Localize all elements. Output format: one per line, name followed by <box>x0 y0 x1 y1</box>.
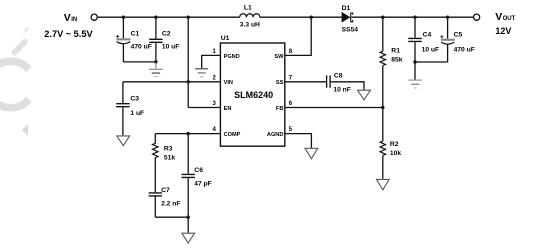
wire R3-C6 bottom <box>155 216 188 218</box>
wire VIN branch vertical <box>187 17 189 107</box>
svg-text:PGND: PGND <box>224 54 240 60</box>
svg-text:2.7V ~ 5.5V: 2.7V ~ 5.5V <box>44 29 93 39</box>
svg-text:47 pF: 47 pF <box>194 180 211 187</box>
wire C4-C5 bottom <box>415 61 448 63</box>
label 10 uF c4 <box>422 46 439 53</box>
pin number 2 <box>212 75 216 81</box>
svg-text:2.2 nF: 2.2 nF <box>161 200 180 207</box>
pin name AGND <box>267 132 283 138</box>
svg-text:C1: C1 <box>131 30 140 37</box>
label 12V <box>495 26 511 36</box>
label 10 nF <box>333 86 350 93</box>
svg-text:SS54: SS54 <box>342 26 359 33</box>
svg-text:R3: R3 <box>164 145 173 152</box>
label 10 uF <box>162 44 179 51</box>
ground triangle R2 <box>376 179 389 189</box>
svg-text:12V: 12V <box>495 26 511 36</box>
ground triangle SS <box>358 90 371 100</box>
svg-text:SS: SS <box>276 80 284 86</box>
pin name FB <box>276 106 283 112</box>
label VOUT <box>495 11 515 23</box>
wire AGND pin <box>285 134 312 148</box>
svg-text:85k: 85k <box>391 56 402 63</box>
label R3 <box>164 145 173 152</box>
wire C1-C2 bottom <box>123 61 155 63</box>
junction rail-C2 <box>154 16 157 19</box>
capacitor C1 <box>116 17 130 62</box>
svg-text:10 uF: 10 uF <box>422 46 439 53</box>
svg-text:SLM6240: SLM6240 <box>234 90 273 100</box>
label 470 uF c5 <box>454 46 475 53</box>
pin name PGND <box>224 54 240 60</box>
diode D1 <box>342 13 353 22</box>
label 470 uF <box>131 44 152 51</box>
wire C3 top <box>123 81 188 83</box>
svg-text:C3: C3 <box>130 96 139 103</box>
svg-text:470 uF: 470 uF <box>131 44 152 51</box>
svg-text:AGND: AGND <box>267 132 283 138</box>
capacitor C3 <box>116 82 129 136</box>
pin number 5 <box>289 127 293 133</box>
svg-text:COMP: COMP <box>224 132 241 138</box>
resistor R3 <box>153 134 158 193</box>
svg-text:10k: 10k <box>390 150 401 157</box>
pin name SW <box>274 54 284 60</box>
ground earth PGND <box>195 69 208 77</box>
capacitor C4 <box>408 17 421 79</box>
label R2 <box>390 141 399 148</box>
wire SS pin <box>285 81 327 83</box>
svg-text:C8: C8 <box>334 72 343 79</box>
junction rail-C4 <box>413 16 416 19</box>
junction C2 bottom <box>154 60 157 63</box>
pin number 7 <box>289 75 293 81</box>
svg-text:FB: FB <box>276 106 283 112</box>
svg-text:R2: R2 <box>390 141 399 148</box>
svg-text:C6: C6 <box>194 167 203 174</box>
junction rail-VIN branch <box>187 16 190 19</box>
pin name SS <box>276 80 284 86</box>
junction bottom node <box>187 216 190 219</box>
svg-text:C2: C2 <box>162 30 171 37</box>
svg-text:10 nF: 10 nF <box>333 86 350 93</box>
capacitor C6 <box>182 134 195 218</box>
svg-text:C7: C7 <box>161 187 170 194</box>
label R1 <box>391 47 400 54</box>
ground triangle bottom <box>182 233 195 243</box>
wire to bottom ground <box>187 217 189 233</box>
wire PGND to ground <box>202 55 221 68</box>
pin number 3 <box>212 101 216 107</box>
pin name EN <box>224 106 232 112</box>
pin name COMP <box>224 132 241 138</box>
capacitor C8 <box>327 75 331 87</box>
label U1 <box>221 35 230 42</box>
watermark letter C <box>0 26 29 135</box>
label L1 <box>244 5 252 12</box>
label VIN <box>64 12 77 24</box>
label 1 uF <box>130 110 144 117</box>
pin name VIN <box>224 80 233 86</box>
svg-text:10 uF: 10 uF <box>162 44 179 51</box>
inductor L1 <box>240 14 260 17</box>
ground earth under C4 <box>408 80 422 88</box>
label 51k <box>164 154 175 161</box>
wire to EN pin <box>188 107 220 109</box>
svg-text:470 uF: 470 uF <box>454 46 475 53</box>
svg-text:51k: 51k <box>164 154 175 161</box>
label C2 <box>162 30 171 37</box>
wire FB pin <box>285 107 383 109</box>
terminal VIN <box>91 14 97 20</box>
svg-text:EN: EN <box>224 106 232 112</box>
junction C4 bottom <box>413 60 416 63</box>
svg-text:U1: U1 <box>221 35 230 42</box>
resistor R2 <box>380 108 385 179</box>
svg-text:1 uF: 1 uF <box>130 110 144 117</box>
label 3.3 uH <box>240 21 260 28</box>
label C6 <box>194 167 203 174</box>
svg-text:R1: R1 <box>391 47 400 54</box>
label C1 <box>131 30 140 37</box>
svg-text:C5: C5 <box>454 31 463 38</box>
wire C8 to ground <box>331 82 364 90</box>
junction rail-R1 <box>381 16 384 19</box>
junction COMP-C6 <box>187 132 190 135</box>
svg-text:OUT: OUT <box>503 16 516 22</box>
junction rail-SW <box>310 16 313 19</box>
junction rail-C5 <box>446 16 449 19</box>
resistor R1 <box>380 17 385 107</box>
junction rail-C1 <box>122 16 125 19</box>
wire COMP pin <box>155 133 220 135</box>
svg-text:V: V <box>64 12 71 24</box>
label C7 <box>161 187 170 194</box>
pin number 1 <box>212 49 216 55</box>
pin number 6 <box>289 101 293 107</box>
label input voltage range <box>44 29 93 39</box>
label C5 <box>454 31 463 38</box>
label 47 pF <box>194 180 211 187</box>
svg-text:D1: D1 <box>342 5 351 12</box>
label 85k <box>391 56 402 63</box>
svg-text:VIN: VIN <box>224 80 233 86</box>
svg-text:L1: L1 <box>244 5 252 12</box>
svg-text:3.3 uH: 3.3 uH <box>240 21 260 28</box>
wire SW pin <box>285 17 311 55</box>
wire to VIN pin <box>188 81 220 83</box>
ground triangle under C3 <box>117 136 130 146</box>
capacitor C7 <box>149 193 162 217</box>
junction FB node <box>381 106 384 109</box>
terminal VOUT <box>474 14 480 20</box>
svg-text:C4: C4 <box>423 31 432 38</box>
svg-text:SW: SW <box>274 54 284 60</box>
svg-text:V: V <box>495 11 502 23</box>
capacitor C5 <box>440 17 455 62</box>
label 10k <box>390 150 401 157</box>
label C3 <box>130 96 139 103</box>
label 2.2 nF <box>161 200 180 207</box>
label SLM6240 <box>234 90 273 100</box>
ground triangle AGND <box>305 148 318 158</box>
wire top rail <box>97 16 473 18</box>
label C4 <box>423 31 432 38</box>
pin number 8 <box>289 49 293 55</box>
op IC U1 SLM6240 <box>220 43 284 146</box>
label C8 <box>334 72 343 79</box>
label SS54 <box>342 26 359 33</box>
pin number 4 <box>212 127 216 133</box>
junction VIN branch <box>187 80 190 83</box>
svg-text:IN: IN <box>71 17 77 23</box>
capacitor C2 <box>149 17 162 62</box>
ground earth under C2 <box>149 62 163 77</box>
label D1 <box>342 5 351 12</box>
